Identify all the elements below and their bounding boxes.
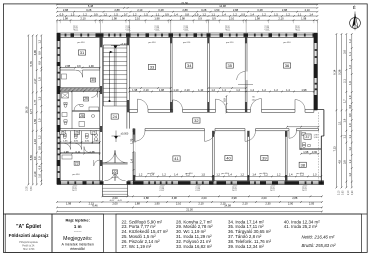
svg-text:0,90: 0,90 <box>352 190 354 195</box>
svg-text:2,10: 2,10 <box>126 25 128 30</box>
svg-text:1,98: 1,98 <box>66 202 72 206</box>
svg-text:34: 34 <box>187 63 192 68</box>
svg-text:1,2: 1,2 <box>103 12 107 16</box>
svg-text:38: 38 <box>300 162 305 167</box>
svg-text:2,10: 2,10 <box>303 186 305 191</box>
svg-text:1,98: 1,98 <box>180 17 186 21</box>
svg-text:2,1: 2,1 <box>338 121 342 125</box>
svg-text:0,6: 0,6 <box>38 165 42 169</box>
svg-text:1,0: 1,0 <box>348 95 352 99</box>
svg-text:0,9: 0,9 <box>94 12 98 16</box>
svg-text:É: É <box>353 4 356 10</box>
svg-text:1,2: 1,2 <box>211 88 215 92</box>
svg-text:1,98: 1,98 <box>301 17 307 21</box>
svg-text:1,1: 1,1 <box>348 52 352 56</box>
svg-text:3,0: 3,0 <box>343 50 347 54</box>
svg-text:2,10: 2,10 <box>196 186 198 191</box>
svg-text:2,30: 2,30 <box>265 202 271 206</box>
svg-text:22: 22 <box>113 170 117 174</box>
svg-text:28: 28 <box>80 114 84 118</box>
svg-text:3,98: 3,98 <box>172 196 178 200</box>
svg-text:0,90: 0,90 <box>343 190 345 195</box>
svg-text:5,48: 5,48 <box>88 4 94 8</box>
svg-text:0,90: 0,90 <box>229 25 231 30</box>
svg-text:1,5: 1,5 <box>144 12 148 16</box>
svg-text:3,77: 3,77 <box>29 108 33 114</box>
svg-text:0,90: 0,90 <box>129 25 131 30</box>
svg-text:1,4: 1,4 <box>286 88 290 92</box>
svg-text:1,2: 1,2 <box>264 173 268 177</box>
svg-text:Rajz léptéke:: Rajz léptéke: <box>65 217 89 222</box>
svg-text:+0,40: +0,40 <box>120 42 127 46</box>
svg-text:27: 27 <box>92 131 96 135</box>
svg-text:0,90: 0,90 <box>187 25 189 30</box>
svg-text:3,98: 3,98 <box>231 196 237 200</box>
svg-text:1,2: 1,2 <box>262 88 266 92</box>
svg-text:0,7: 0,7 <box>124 12 128 16</box>
svg-text:0,28: 0,28 <box>158 8 164 12</box>
svg-text:1,4: 1,4 <box>150 173 154 177</box>
svg-text:1,4: 1,4 <box>174 173 178 177</box>
svg-text:1,8: 1,8 <box>38 77 42 81</box>
svg-text:6,46: 6,46 <box>92 204 98 208</box>
svg-text:1,98: 1,98 <box>159 88 165 92</box>
svg-text:Bruttó: 255,83 m²: Bruttó: 255,83 m² <box>302 243 336 248</box>
svg-text:1,56: 1,56 <box>33 118 37 124</box>
svg-text:3,30: 3,30 <box>27 186 29 191</box>
svg-text:1,90: 1,90 <box>154 202 160 206</box>
svg-text:2,10: 2,10 <box>296 25 298 30</box>
svg-text:2,88: 2,88 <box>114 8 120 12</box>
svg-text:36: 36 <box>285 63 290 68</box>
svg-text:41. Iroda 25,2 m²: 41. Iroda 25,2 m² <box>284 224 318 229</box>
svg-text:0,90: 0,90 <box>77 25 79 30</box>
svg-text:2,10: 2,10 <box>242 202 248 206</box>
svg-text:1,2: 1,2 <box>286 12 290 16</box>
svg-text:5,56: 5,56 <box>29 155 33 161</box>
svg-text:1,5: 1,5 <box>274 12 278 16</box>
svg-text:2,88: 2,88 <box>65 64 71 68</box>
svg-text:2,10: 2,10 <box>155 25 157 30</box>
svg-text:1,50: 1,50 <box>214 8 220 12</box>
svg-text:2,10: 2,10 <box>74 25 76 30</box>
svg-text:1,5: 1,5 <box>71 12 75 16</box>
svg-text:0,28: 0,28 <box>257 8 263 12</box>
svg-text:0,90: 0,90 <box>199 186 201 191</box>
svg-text:39: 39 <box>262 156 267 161</box>
svg-text:25: 25 <box>61 131 65 135</box>
svg-text:1,2: 1,2 <box>139 173 143 177</box>
svg-text:2,10: 2,10 <box>305 8 311 12</box>
svg-text:1,2: 1,2 <box>262 12 266 16</box>
svg-text:0,28: 0,28 <box>201 8 207 12</box>
svg-text:2,10: 2,10 <box>33 139 37 145</box>
svg-text:1,2: 1,2 <box>274 88 278 92</box>
svg-text:24: 24 <box>112 114 117 119</box>
svg-text:Földszinti alaprajz: Földszinti alaprajz <box>9 233 50 238</box>
svg-text:0,9: 0,9 <box>223 98 227 102</box>
svg-text:1,1: 1,1 <box>298 12 302 16</box>
svg-text:5,36: 5,36 <box>338 69 342 75</box>
svg-text:0,9: 0,9 <box>198 17 202 21</box>
svg-text:7,13: 7,13 <box>333 146 337 152</box>
svg-text:2,00: 2,00 <box>112 196 118 200</box>
svg-text:1,4: 1,4 <box>252 173 256 177</box>
svg-text:4,9: 4,9 <box>338 159 342 163</box>
svg-text:1,1: 1,1 <box>343 134 347 138</box>
svg-text:1,2: 1,2 <box>83 12 87 16</box>
svg-text:1,9: 1,9 <box>343 118 347 122</box>
svg-text:30: 30 <box>91 78 95 82</box>
svg-text:1,98: 1,98 <box>255 17 261 21</box>
svg-text:0,90: 0,90 <box>76 186 78 191</box>
svg-text:33. Iroda 16,82 m²: 33. Iroda 16,82 m² <box>176 244 212 249</box>
svg-text:0,90: 0,90 <box>306 186 308 191</box>
svg-text:33: 33 <box>150 65 155 70</box>
svg-text:2,10: 2,10 <box>278 17 284 21</box>
svg-text:pm 010: pm 010 <box>77 42 85 44</box>
svg-text:0,9: 0,9 <box>38 61 42 65</box>
svg-text:1,98: 1,98 <box>112 17 118 21</box>
svg-text:2,10: 2,10 <box>137 8 143 12</box>
svg-text:1,3: 1,3 <box>348 172 352 176</box>
svg-text:~~~~~: ~~~~~ <box>74 231 82 234</box>
svg-text:1,4: 1,4 <box>130 159 134 163</box>
svg-text:0,9: 0,9 <box>165 12 169 16</box>
svg-text:0,9: 0,9 <box>38 51 42 55</box>
svg-text:2,88: 2,88 <box>292 196 298 200</box>
svg-text:A méretek méterben: A méretek méterben <box>62 242 94 246</box>
svg-text:14,98: 14,98 <box>219 4 226 8</box>
svg-text:1,2: 1,2 <box>202 12 206 16</box>
svg-text:2,10: 2,10 <box>184 25 186 30</box>
svg-text:2,1: 2,1 <box>343 79 347 83</box>
svg-text:1,4: 1,4 <box>174 12 178 16</box>
svg-text:2,10: 2,10 <box>338 190 340 195</box>
svg-text:1,2: 1,2 <box>133 12 137 16</box>
svg-text:2,00: 2,00 <box>261 196 267 200</box>
svg-text:2,10: 2,10 <box>265 25 267 30</box>
svg-text:31: 31 <box>80 50 85 55</box>
svg-text:1,6: 1,6 <box>348 81 352 85</box>
svg-text:1 m: 1 m <box>74 224 82 229</box>
svg-text:41: 41 <box>174 156 179 161</box>
svg-text:pm 010: pm 010 <box>111 177 119 179</box>
svg-text:1,7: 1,7 <box>343 99 347 103</box>
svg-text:21,30: 21,30 <box>186 208 193 212</box>
svg-text:9,14: 9,14 <box>333 69 337 75</box>
svg-text:0,8: 0,8 <box>185 12 189 16</box>
svg-text:0,9: 0,9 <box>195 12 199 16</box>
svg-text:Megjegyzés:: Megjegyzés: <box>63 236 92 242</box>
svg-text:1,90: 1,90 <box>89 64 95 68</box>
svg-text:2,00: 2,00 <box>201 196 207 200</box>
svg-text:1,2: 1,2 <box>162 173 166 177</box>
svg-text:29: 29 <box>84 97 88 101</box>
svg-text:1,10: 1,10 <box>173 88 179 92</box>
svg-text:0,90: 0,90 <box>236 186 238 191</box>
svg-text:2,00: 2,00 <box>288 202 294 206</box>
svg-text:2,10: 2,10 <box>80 17 86 21</box>
svg-text:32: 32 <box>194 118 199 123</box>
svg-text:2,10: 2,10 <box>233 186 235 191</box>
svg-text:1,5: 1,5 <box>114 12 118 16</box>
svg-text:1,2: 1,2 <box>348 39 352 43</box>
svg-text:1,38: 1,38 <box>89 150 95 154</box>
svg-text:1,0: 1,0 <box>38 174 42 178</box>
svg-text:0,90: 0,90 <box>299 25 301 30</box>
svg-text:1,2: 1,2 <box>348 146 352 150</box>
svg-text:40: 40 <box>226 156 231 161</box>
svg-text:pm 010: pm 010 <box>72 174 80 176</box>
svg-text:0,9: 0,9 <box>241 12 245 16</box>
svg-text:1,5: 1,5 <box>201 173 205 177</box>
svg-text:2,88: 2,88 <box>182 8 188 12</box>
svg-text:Pribojszki épülete: Pribojszki épülete <box>19 241 38 244</box>
svg-text:1,98: 1,98 <box>301 88 307 92</box>
svg-text:35: 35 <box>227 63 232 68</box>
svg-text:1,88: 1,88 <box>135 202 141 206</box>
svg-text:0,9: 0,9 <box>348 113 352 117</box>
svg-text:1,5: 1,5 <box>38 118 42 122</box>
svg-text:2,88: 2,88 <box>144 196 150 200</box>
svg-text:2,05: 2,05 <box>309 202 315 206</box>
svg-text:1,4: 1,4 <box>222 88 226 92</box>
svg-text:1,2: 1,2 <box>277 173 281 177</box>
svg-text:1,77: 1,77 <box>33 99 37 105</box>
svg-text:1,1: 1,1 <box>156 12 160 16</box>
svg-text:1,70: 1,70 <box>130 138 134 144</box>
svg-text:2,10: 2,10 <box>271 186 273 191</box>
svg-text:2,88: 2,88 <box>63 8 69 12</box>
svg-text:26: 26 <box>75 131 79 135</box>
svg-text:1,10: 1,10 <box>198 88 204 92</box>
svg-text:5,76: 5,76 <box>29 61 33 67</box>
svg-text:pm 010: pm 010 <box>148 42 156 44</box>
svg-text:16,10: 16,10 <box>25 106 29 113</box>
svg-text:1,2: 1,2 <box>38 135 42 139</box>
svg-text:14,98: 14,98 <box>224 204 231 208</box>
svg-text:0,11: 0,11 <box>76 150 81 154</box>
svg-text:3,8: 3,8 <box>343 160 347 164</box>
svg-text:0,9: 0,9 <box>60 12 64 16</box>
svg-text:2,10: 2,10 <box>348 190 350 195</box>
svg-text:1,3: 1,3 <box>313 173 317 177</box>
svg-text:3,30: 3,30 <box>31 186 33 191</box>
svg-text:1,2: 1,2 <box>233 12 237 16</box>
svg-text:1,1: 1,1 <box>348 134 352 138</box>
svg-text:0,90: 0,90 <box>158 25 160 30</box>
svg-text:0,6: 0,6 <box>348 104 352 108</box>
svg-text:0,28: 0,28 <box>86 8 92 12</box>
svg-text:1,2: 1,2 <box>38 39 42 43</box>
svg-text:1,2: 1,2 <box>186 173 190 177</box>
svg-text:2,00: 2,00 <box>112 202 118 206</box>
svg-text:Hrsz: 4703: Hrsz: 4703 <box>23 248 35 251</box>
svg-text:0,90: 0,90 <box>268 25 270 30</box>
svg-text:39. Iroda 12,34 m²: 39. Iroda 12,34 m² <box>228 244 264 249</box>
svg-text:21,30: 21,30 <box>181 1 188 5</box>
svg-text:2,17: 2,17 <box>33 78 37 84</box>
svg-text:1,4: 1,4 <box>250 88 254 92</box>
svg-text:pm 010: pm 010 <box>183 42 191 44</box>
svg-text:1,2: 1,2 <box>240 173 244 177</box>
svg-text:2,10: 2,10 <box>73 186 75 191</box>
svg-text:37: 37 <box>305 134 310 139</box>
svg-text:2,10: 2,10 <box>198 202 204 206</box>
svg-text:1,3: 1,3 <box>38 96 42 100</box>
svg-text:0,90: 0,90 <box>312 150 318 154</box>
svg-text:1,3: 1,3 <box>348 65 352 69</box>
svg-text:2,10: 2,10 <box>135 17 141 21</box>
svg-text:0,9: 0,9 <box>77 64 81 68</box>
svg-text:1,4: 1,4 <box>309 12 313 16</box>
svg-text:2,88: 2,88 <box>233 8 239 12</box>
svg-text:2,10: 2,10 <box>184 88 190 92</box>
svg-text:2,10: 2,10 <box>226 25 228 30</box>
svg-text:0,9: 0,9 <box>33 156 37 160</box>
svg-text:1,98: 1,98 <box>63 17 69 21</box>
svg-text:1,4: 1,4 <box>250 12 254 16</box>
svg-text:0,8: 0,8 <box>38 146 42 150</box>
svg-text:1,2: 1,2 <box>236 88 240 92</box>
svg-text:Nettó: 216,46 m²: Nettó: 216,46 m² <box>302 235 335 240</box>
svg-text:1,4: 1,4 <box>228 173 232 177</box>
svg-text:3,06: 3,06 <box>33 50 37 56</box>
svg-text:0,90: 0,90 <box>163 186 165 191</box>
svg-text:"A" Épület: "A" Épület <box>16 222 41 230</box>
svg-text:1,2: 1,2 <box>348 159 352 163</box>
svg-text:1,2: 1,2 <box>300 173 304 177</box>
svg-text:2,10: 2,10 <box>229 17 235 21</box>
svg-text:1,2: 1,2 <box>216 173 220 177</box>
svg-text:értendők!: értendők! <box>70 247 85 251</box>
svg-text:2,10: 2,10 <box>160 186 162 191</box>
svg-text:1,98: 1,98 <box>154 17 160 21</box>
svg-text:pm 010: pm 010 <box>283 42 291 44</box>
svg-text:pm 010: pm 010 <box>226 42 234 44</box>
svg-text:1,0: 1,0 <box>348 123 352 127</box>
svg-text:2,88: 2,88 <box>282 8 288 12</box>
svg-text:1,98: 1,98 <box>303 150 309 154</box>
svg-text:1,4: 1,4 <box>289 173 293 177</box>
svg-text:2,10: 2,10 <box>33 171 37 177</box>
svg-text:0,9: 0,9 <box>212 17 216 21</box>
svg-text:±0,000: ±0,000 <box>121 133 129 136</box>
svg-text:1,1: 1,1 <box>211 12 215 16</box>
svg-text:27. Wc 1,19 m²: 27. Wc 1,19 m² <box>122 244 152 249</box>
svg-text:23: 23 <box>75 161 79 165</box>
svg-text:0,90: 0,90 <box>274 186 276 191</box>
svg-text:1,0: 1,0 <box>38 156 42 160</box>
svg-text:1,98: 1,98 <box>64 150 70 154</box>
svg-text:1,4: 1,4 <box>222 12 226 16</box>
svg-text:2,10: 2,10 <box>143 88 149 92</box>
svg-text:2,10: 2,10 <box>176 202 182 206</box>
svg-text:1,98: 1,98 <box>132 88 138 92</box>
